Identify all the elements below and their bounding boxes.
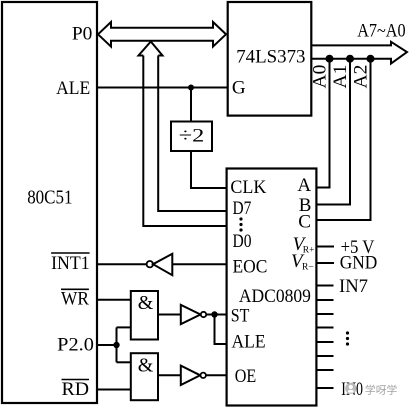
svg-text:RD: RD [62,379,90,400]
wire IN5 stub [316,313,333,315]
svg-text:ALE: ALE [56,78,90,99]
inverter U4 triangle (pointing left) [153,254,172,275]
divide-by-2 box [171,122,212,152]
svg-text:R+: R+ [303,246,315,256]
AND gate 1 box [131,291,158,340]
wire ALE tap down to divider [190,88,192,122]
svg-text:D7: D7 [233,198,252,219]
pin INT1 (active low) [51,253,90,274]
wire VR+ stub [316,246,334,248]
ellipsis dots between D7 and D0 [239,217,242,231]
wire RD to AND2 [97,389,131,391]
wire IN6 stub [316,299,333,301]
wire AND1 output [158,314,181,316]
svg-text:OE: OE [235,366,257,387]
svg-text:G: G [232,78,246,99]
bidirectional bus arrow P0 to 74LS373 [98,22,226,47]
svg-text:C: C [298,211,311,232]
node junction A0 [326,55,334,63]
pin RD (active low) [62,379,90,400]
svg-text:EOC: EOC [233,256,268,277]
wire P2.0 vertical branch [116,327,118,362]
wire IN1 stub [316,369,333,371]
inverter U5 triangle (pointing right) [181,305,201,324]
svg-text:R−: R− [302,262,314,272]
svg-text:GND: GND [340,252,378,273]
svg-text:ADC0809: ADC0809 [239,286,311,307]
wire branch to AND2 input [117,361,131,363]
wire IN2 stub [316,355,333,357]
watermark circle logo [345,383,356,394]
wire AND2 output [158,374,181,376]
inverter U6 triangle (pointing right) [181,366,200,385]
svg-text:ALE: ALE [232,332,266,353]
wire IN3 stub [316,341,333,343]
svg-text:IN7: IN7 [339,276,368,297]
wire VR- stub [316,262,334,264]
IC U3 ADC0809 box [227,169,317,406]
svg-text:74LS373: 74LS373 [236,46,305,67]
wire to ST [206,314,226,316]
svg-text:D0: D0 [233,231,252,252]
svg-text:A1: A1 [330,65,351,89]
inverter U4 (EOC to INT1) bubble [147,261,153,267]
wire IN7 stub [316,285,333,287]
wire IN4 stub [316,327,333,329]
ellipsis dots between IN stubs [346,331,349,345]
svg-text:&: & [138,355,154,377]
pin WR (active low) [61,288,89,309]
pin VR+ [293,234,315,256]
AND gate 2 box [131,353,158,400]
node junction on ST line [211,311,217,317]
svg-text:A2: A2 [351,65,372,89]
wire data bus right edge to D7 [158,56,226,212]
node junction A1 [346,55,354,63]
inverter U6 bubble [201,373,206,378]
node junction on ALE line [188,85,194,91]
svg-text:A0: A0 [310,65,331,89]
wire branch to AND1 input [117,326,131,328]
wire EOC to inverter [172,263,226,265]
wire P2.0 [97,344,117,346]
node junction on P2.0 [113,342,119,348]
wire B to bus [316,59,350,205]
svg-text:INT1: INT1 [51,253,90,274]
wire WR to AND1 [97,299,131,301]
svg-text:÷2: ÷2 [179,126,205,147]
wire ST to ALE tie [215,315,227,345]
wire INT1 to inverter [97,263,147,265]
node junction A2 [367,55,375,63]
wire A to bus [316,59,329,188]
data bus hollow arrowhead (up) [139,42,163,56]
svg-text:P0: P0 [72,24,93,45]
wire ALE to G [97,87,228,89]
wire IN0 stub [316,387,333,389]
wire to OE [206,374,227,376]
svg-text:ST: ST [231,306,250,327]
IC U2 74LS373 box [228,2,312,116]
svg-text:CLK: CLK [230,177,266,198]
address bus hollow arrow A7~A0 [312,42,408,64]
svg-text:A: A [297,175,311,196]
svg-text:80C51: 80C51 [27,186,72,208]
svg-text:P2.0: P2.0 [57,335,94,356]
wire C to bus [316,59,370,220]
svg-text:A7~A0: A7~A0 [357,20,405,41]
pin VR- [291,251,314,273]
inverter U5 bubble [201,312,206,317]
svg-text:学呀学: 学呀学 [365,383,398,396]
IC U1 80C51 box [2,2,97,403]
svg-text:WR: WR [61,288,89,309]
wire data bus left edge to D0 [143,56,226,227]
svg-text:&: & [138,292,154,314]
wire divider output to CLK [191,151,227,188]
